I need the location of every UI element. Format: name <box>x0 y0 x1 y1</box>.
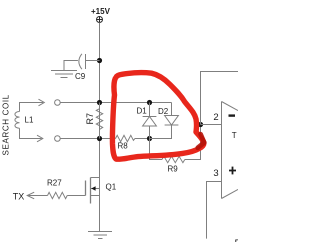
svg-text:TX: TX <box>13 192 25 202</box>
diode D2 (cathode down) <box>150 103 179 139</box>
wire feedback up and right <box>201 72 239 125</box>
node bottom rail / main vertical <box>97 136 102 141</box>
wire C9 to ground <box>64 61 78 71</box>
wire L1 bottom stub with arrow <box>20 128 42 138</box>
svg-text:Q1: Q1 <box>106 183 117 192</box>
op-amp U1 (clipped at right edge) <box>222 102 239 199</box>
node connector bottom (open circle) <box>55 136 61 142</box>
wire main vertical rail x=99.5 from +15V to ground <box>99 23 101 232</box>
node C9 junction <box>97 58 102 63</box>
transistor Q1 (n-mosfet) <box>86 178 100 204</box>
node top rail / main vertical <box>97 100 102 105</box>
diode D1 (cathode up) <box>143 103 157 139</box>
resistor R7 (vertical) <box>96 103 102 139</box>
inductor L1 <box>15 112 20 129</box>
ground (Q1 source) <box>88 232 112 239</box>
wire TX arrow (pointing left) <box>27 192 47 199</box>
wire bottom rail left segment <box>60 138 115 140</box>
wire pin 3 <box>207 182 222 239</box>
power +15V <box>97 17 103 23</box>
svg-text:D2: D2 <box>158 107 169 116</box>
svg-text:R7: R7 <box>85 113 95 125</box>
node inverting input junction <box>198 122 203 127</box>
node connector top (open circle) <box>55 100 61 106</box>
op-amp minus sign <box>229 114 236 116</box>
svg-text:R27: R27 <box>47 179 62 188</box>
svg-text:D1: D1 <box>137 107 148 116</box>
annotation red loop <box>112 73 204 160</box>
wire L1 top stub with arrow <box>20 103 44 112</box>
wire R9 right lead up to feedback line <box>185 125 201 160</box>
svg-text:R9: R9 <box>168 165 179 174</box>
svg-text:2: 2 <box>213 112 218 123</box>
svg-text:T: T <box>232 131 237 140</box>
wire pin 2 to op-amp <box>201 124 222 126</box>
svg-text:+15V: +15V <box>91 7 111 16</box>
node top rail / D1 <box>147 100 152 105</box>
wire gate lead <box>67 195 85 197</box>
node bottom rail / D1-R9 <box>147 136 152 141</box>
resistor R8 <box>116 135 135 141</box>
svg-text:L1: L1 <box>25 116 34 125</box>
capacitor C9 <box>79 54 86 69</box>
svg-text:SEARCH COIL: SEARCH COIL <box>2 94 11 155</box>
op-amp plus sign <box>229 167 236 175</box>
resistor R27 <box>48 192 68 198</box>
wire R9 left lead (down from diode node) <box>150 139 163 160</box>
svg-text:3: 3 <box>213 168 218 179</box>
ground (C9) <box>51 71 77 78</box>
wire C9 to rail <box>86 60 100 62</box>
svg-text:R8: R8 <box>118 142 129 151</box>
wire R8 to diode node <box>135 138 150 140</box>
svg-text:C9: C9 <box>75 72 86 81</box>
wire top rail <box>60 102 171 104</box>
svg-text:R: R <box>235 239 239 242</box>
resistor R9 <box>162 156 185 162</box>
